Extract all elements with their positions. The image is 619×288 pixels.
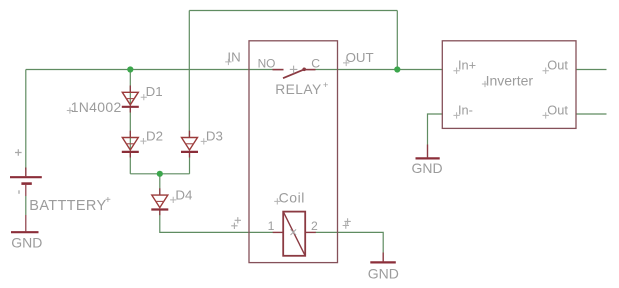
wire main IN bus (26, 69, 273, 71)
svg-text:GND: GND (11, 235, 42, 251)
pin cross IN (225, 59, 231, 65)
ground GND inverter (416, 145, 440, 159)
wire inverter Out bottom (576, 113, 607, 115)
pin cross D2 (140, 138, 146, 144)
diode D2 (122, 131, 139, 158)
wire top feedback horizontal (189, 10, 397, 12)
label BATTTERY (29, 195, 111, 214)
svg-text:1: 1 (268, 219, 275, 233)
label C (311, 57, 320, 71)
wire inverter Out top (576, 69, 607, 71)
wire D4 to coil run (160, 210, 273, 232)
junction node at D1 top (127, 66, 133, 72)
svg-text:C: C (311, 57, 320, 71)
svg-text:+: + (105, 195, 111, 206)
pin cross switch center (290, 66, 298, 74)
label GND inverter (412, 160, 443, 176)
label In+ (458, 58, 476, 73)
relay switch blade (283, 68, 306, 79)
label RELAY (275, 80, 329, 97)
relay coil box (283, 212, 305, 256)
svg-text:1N4002: 1N4002 (71, 99, 122, 115)
svg-text:D4: D4 (175, 188, 192, 203)
svg-text:D1: D1 (146, 84, 163, 99)
pin cross Out top (543, 68, 549, 74)
wire top feedback right vertical to OUT (396, 11, 398, 70)
label D1 (146, 84, 163, 99)
svg-text:OUT: OUT (346, 50, 374, 65)
label Out top (547, 58, 568, 73)
diode D1 (122, 86, 139, 113)
label GND coil (368, 265, 399, 281)
wire inverter In- to GND (428, 114, 444, 145)
wire coil pin2 to GND corner (316, 232, 384, 252)
svg-text:2: 2 (311, 219, 318, 233)
inverter U2 box outline (442, 41, 576, 129)
pin cross coil center (291, 229, 297, 235)
wire D1 D2 branch vertical (129, 70, 131, 174)
svg-text:In-: In- (458, 103, 473, 118)
relay coil pin 2 lead (305, 231, 316, 233)
wire battery drop (25, 70, 27, 170)
diode D3 (181, 131, 198, 158)
svg-text:GND: GND (412, 160, 443, 176)
junction node at D2 D3 join (157, 171, 163, 177)
label D4 (175, 188, 192, 203)
label D2 (146, 129, 163, 144)
svg-text:BATTTERY: BATTTERY (29, 198, 106, 214)
svg-text:D3: D3 (206, 129, 223, 144)
pin cross Coil (274, 198, 280, 204)
label battery minus tick (18, 190, 20, 194)
label GND battery (11, 235, 42, 251)
label NO (258, 57, 276, 71)
label D3 (206, 129, 223, 144)
pin cross In- (453, 112, 459, 118)
svg-text:RELAY: RELAY (275, 82, 321, 97)
label battery plus (15, 149, 22, 156)
svg-text:+: + (323, 80, 329, 91)
relay coil pin 1 lead (273, 231, 284, 233)
pin cross In+ (453, 68, 459, 74)
svg-text:Inverter: Inverter (486, 72, 534, 88)
label IN (227, 49, 240, 64)
svg-text:NO: NO (258, 57, 276, 71)
svg-text:Out: Out (547, 58, 568, 73)
wire joining D2 D3 bottoms (130, 173, 189, 175)
label 1N4002 (71, 99, 122, 115)
pin cross OUT (343, 60, 349, 66)
pin cross Out bottom (543, 112, 549, 118)
relay U1 box outline (249, 41, 338, 263)
diode D4 (151, 188, 168, 215)
pin cross D4 (170, 197, 176, 203)
battery B1 symbol (10, 168, 42, 216)
label OUT (346, 50, 374, 65)
wire D3 bottom vertical (189, 153, 191, 174)
pin cross D3 (201, 138, 207, 144)
relay switch NO contact lead (273, 69, 284, 71)
pin cross D1 (141, 94, 147, 100)
pin cross Inverter (482, 81, 488, 87)
ground GND battery (11, 215, 39, 232)
svg-text:Coil: Coil (279, 190, 305, 206)
wire relay C to OUT junction to inverter In+ (316, 69, 444, 71)
label coil pin 1 (268, 219, 275, 233)
label coil pin 2 (311, 219, 318, 233)
wire top feedback left vertical to D3 (188, 11, 190, 138)
relay switch C contact lead (306, 69, 316, 71)
svg-text:D2: D2 (146, 129, 163, 144)
wire junction to D4 (159, 174, 161, 195)
label In- (458, 103, 473, 118)
junction node at OUT (394, 66, 400, 72)
label Coil (279, 190, 305, 206)
ground GND coil (370, 253, 396, 263)
label Inverter (486, 72, 534, 88)
svg-text:GND: GND (368, 265, 399, 281)
svg-text:Out: Out (547, 103, 568, 118)
pin cross coil left (231, 217, 241, 229)
label Out bottom (547, 103, 568, 118)
pin cross 1N4002 (67, 107, 73, 113)
pin cross coil right (343, 218, 351, 229)
svg-text:In+: In+ (458, 58, 476, 73)
